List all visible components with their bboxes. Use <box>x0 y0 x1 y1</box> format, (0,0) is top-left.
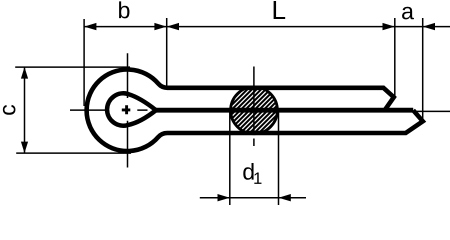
extension line a right (long leg tip) <box>422 18 424 121</box>
eye inner opening (teardrop with beak) <box>107 93 156 125</box>
dimension line d1 left tail <box>200 197 230 199</box>
arrowhead c bottom <box>21 142 28 154</box>
label d <box>243 163 253 180</box>
label d subscript 1 <box>254 173 261 184</box>
tip reference line at long leg end <box>416 110 450 112</box>
extension line b right / L left <box>166 18 168 87</box>
dimension line b + L + a (continuous) <box>84 26 450 28</box>
label c (rotated) <box>3 105 16 115</box>
cotter pin body: eye outer contour, upper leg with chevron tip, lower leg <box>87 69 423 151</box>
arrowhead c top <box>21 67 28 79</box>
arrowhead L left <box>167 23 179 30</box>
dimension line d1 middle <box>230 197 279 199</box>
extension line d1 right <box>278 112 280 205</box>
extension line c bottom <box>16 152 131 154</box>
section circle vertical centerline <box>253 67 255 147</box>
arrowhead b right <box>154 23 166 30</box>
extension line d1 left <box>229 112 231 205</box>
extension line L right / a left (short leg tip) <box>394 18 396 97</box>
arrowhead d1 right (outside) <box>279 194 291 201</box>
arrowhead d1 left (outside) <box>218 194 230 201</box>
wire split line between the two legs <box>156 108 413 113</box>
eye center cross <box>122 105 131 114</box>
extension line c top <box>15 66 130 68</box>
eye horizontal centerline <box>70 109 148 111</box>
arrowhead b left <box>84 23 96 30</box>
hatched wire cross-section circle d1 <box>224 34 284 186</box>
dimension line d1 right tail <box>279 197 307 199</box>
extension line b left (eye left tangent) <box>83 19 85 106</box>
eye vertical centerline <box>127 53 129 167</box>
arrowhead L right <box>383 23 395 30</box>
arrowhead a (from outside, pointing left) <box>423 23 435 30</box>
label a <box>402 7 414 20</box>
dimension line c <box>24 67 26 153</box>
label L <box>274 1 286 19</box>
label b <box>119 1 129 18</box>
